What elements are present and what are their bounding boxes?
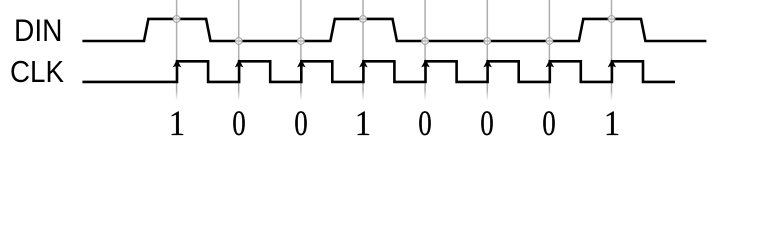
gridline 2 (clock edge t2) — [238, 0, 240, 100]
sample marker 7 (DIN low) — [546, 38, 553, 45]
gridline 6 (clock edge t6) — [486, 0, 488, 100]
gridline 1 (clock edge t1) — [176, 0, 178, 100]
label DIN (signal name) — [14, 12, 59, 49]
sample marker 4 (DIN high) — [360, 16, 367, 23]
sample marker 3 (DIN low) — [298, 38, 305, 45]
label CLK (signal name) — [10, 55, 61, 90]
clock edge arrow 1 — [173, 59, 182, 67]
sample marker 8 (DIN high) — [608, 16, 615, 23]
clock edge arrow 5 — [421, 59, 430, 67]
bit label 3 (value 0) — [278, 102, 323, 144]
clock edge arrow 3 — [297, 59, 306, 67]
gridline 5 (clock edge t5) — [424, 0, 426, 100]
bit label 6 (value 0) — [465, 102, 510, 144]
gridline 3 (clock edge t3) — [300, 0, 302, 100]
clock edge arrow 4 — [359, 59, 368, 67]
clock edge arrow 7 — [546, 59, 555, 67]
clock edge arrow 2 — [235, 59, 244, 67]
DIN waveform (data 10010001) — [82, 19, 706, 41]
bit label 8 (value 1) — [585, 102, 639, 144]
clock edge arrow 8 — [608, 59, 617, 67]
gridline 8 (clock edge t8) — [611, 0, 613, 100]
bit label 2 (value 0) — [216, 102, 261, 144]
gridline 4 (clock edge t4) — [362, 0, 364, 100]
CLK waveform — [82, 61, 675, 82]
gridline 7 (clock edge t7) — [548, 0, 550, 100]
bit label 5 (value 0) — [403, 102, 448, 144]
sample marker 5 (DIN low) — [422, 38, 429, 45]
clock edge arrow 6 — [483, 59, 492, 67]
sample marker 6 (DIN low) — [484, 38, 491, 45]
sample marker 2 (DIN low) — [235, 38, 242, 45]
sample marker 1 (DIN high) — [173, 16, 180, 23]
bit label 7 (value 0) — [527, 102, 572, 144]
bit label 1 (value 1) — [150, 102, 204, 144]
bit label 4 (value 1) — [336, 102, 390, 144]
